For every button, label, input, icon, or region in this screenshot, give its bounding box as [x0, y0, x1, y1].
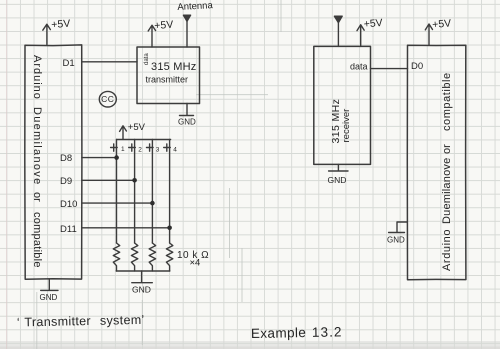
resistor R4 top wire: [169, 140, 171, 244]
svg-text:GND: GND: [40, 293, 58, 302]
svg-text:data: data: [144, 53, 150, 65]
svg-text:2: 2: [138, 146, 142, 153]
tick mark 4: [164, 144, 171, 151]
wire D9: [82, 179, 135, 181]
wire D1: [82, 61, 137, 63]
Arduino U1 box: [25, 45, 82, 279]
svg-text:GND: GND: [178, 118, 196, 127]
wire D11: [82, 227, 170, 229]
resistor R2 top wire: [134, 140, 136, 244]
svg-text:GND: GND: [328, 175, 347, 185]
svg-text:4: 4: [173, 146, 177, 153]
svg-text:transmitter: transmitter: [146, 75, 189, 85]
svg-text:1: 1: [121, 146, 125, 153]
wire D10: [82, 202, 152, 204]
tick mark 3: [147, 144, 154, 151]
receiver module U3 box: [314, 46, 371, 164]
svg-text:+5V: +5V: [51, 18, 71, 31]
transmitter module U2 box: [137, 47, 200, 104]
svg-text:‘Transmittersystem’: ‘Transmittersystem’: [17, 313, 145, 330]
svg-text:GND: GND: [387, 236, 405, 245]
svg-text:D9: D9: [60, 176, 72, 187]
svg-text:+5V: +5V: [154, 19, 174, 32]
+5V supply arrow (U2): [148, 25, 155, 47]
svg-text:data: data: [350, 62, 368, 72]
resistor R1 top wire: [116, 140, 118, 244]
junction dot D10/R3: [150, 201, 155, 206]
svg-text:GND: GND: [132, 285, 151, 295]
svg-text:D1: D1: [63, 58, 75, 69]
antenna (U2): [183, 15, 190, 47]
svg-text:D11: D11: [60, 224, 77, 235]
resistor R4: [166, 243, 172, 271]
svg-text:Antenna: Antenna: [177, 0, 214, 13]
resistor R3 top wire: [151, 140, 153, 244]
ground (U3): [329, 164, 348, 171]
svg-text:+5V: +5V: [363, 17, 383, 31]
+5V supply arrow (U1): [43, 24, 51, 45]
tick mark 1: [111, 144, 118, 151]
ground (U1): [41, 279, 58, 290]
antenna (U3): [334, 16, 342, 46]
svg-text:Example13.2: Example13.2: [251, 324, 343, 341]
junction dot D11/R4: [167, 226, 172, 231]
+5V top bus: [117, 139, 171, 141]
svg-text:+5V: +5V: [432, 17, 452, 31]
svg-text:receiver: receiver: [341, 109, 352, 143]
+5V supply arrow (U3): [357, 25, 364, 47]
CC mark: [99, 91, 116, 107]
svg-text:3: 3: [156, 146, 160, 153]
ground (U2): [180, 104, 194, 116]
svg-text:D8: D8: [60, 153, 72, 164]
svg-text:ArduinoDuemilanoveorcompatible: ArduinoDuemilanoveorcompatible: [31, 55, 43, 268]
wire D8: [82, 157, 117, 159]
svg-text:×4: ×4: [190, 258, 201, 269]
Arduino U4 box: [407, 45, 466, 280]
wire data to D0: [371, 68, 408, 70]
svg-text:+5V: +5V: [128, 122, 146, 133]
svg-text:ArduinoDuemilanoveorcompatible: ArduinoDuemilanoveorcompatible: [441, 72, 453, 271]
faint pink margin line: [6, 0, 8, 349]
svg-text:315 MHz: 315 MHz: [151, 61, 196, 73]
resistor R3: [149, 243, 155, 271]
resistor R2: [131, 243, 137, 271]
svg-text:CC: CC: [101, 94, 114, 104]
tick mark 2: [129, 144, 136, 151]
resistor R1: [113, 243, 119, 271]
ground (U4): [389, 222, 408, 233]
svg-text:D0: D0: [411, 61, 423, 72]
+5V supply arrow (U4): [425, 24, 432, 45]
ground (resistor bank): [132, 271, 153, 283]
svg-text:D10: D10: [60, 199, 77, 210]
+5V rail arrow (resistor bank): [120, 126, 127, 140]
junction dot D8/R1: [114, 155, 119, 160]
junction dot D9/R2: [132, 178, 137, 183]
resistor bottom bus: [116, 270, 170, 272]
